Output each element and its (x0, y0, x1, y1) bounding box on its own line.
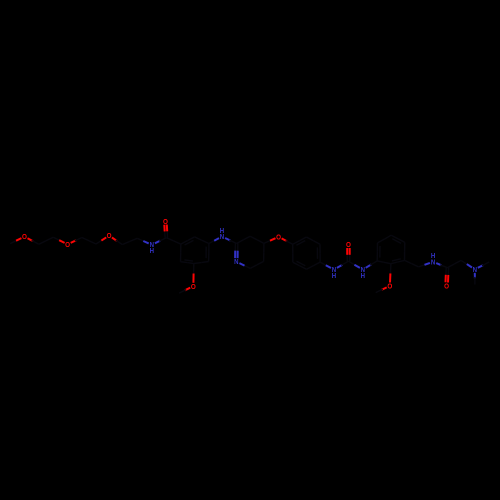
svg-text:O: O (191, 282, 196, 291)
ring2 inner aromatic line R2TR-C12 (316, 247, 318, 259)
double bond C13=O7 urea carbonyl (347, 248, 350, 261)
ring2 edge C11-T (293, 237, 307, 244)
bond C3-C4 (82, 238, 96, 245)
ring3 edge C14-B (377, 261, 391, 264)
bond C10-O6 (aryl ether) (264, 238, 276, 243)
double bond C16=O9 carbonyl (446, 268, 449, 283)
bond ring1-N2 (209, 238, 219, 243)
ring4 edge C8-T (237, 236, 251, 243)
ring2 edge B-BL (293, 262, 307, 269)
bond C2-O2 (53, 237, 64, 243)
svg-text:O: O (107, 231, 112, 240)
ring1 inner aromatic line R1L-R1T (185, 240, 194, 245)
double bond C7=O4 carbonyl (164, 225, 167, 238)
bond ring3-C15 (405, 260, 419, 267)
ring4 edge T-C10 (250, 236, 264, 243)
ring2 edge T-TR (306, 237, 320, 244)
ring1 inner aromatic line R1R-R1BR (205, 247, 207, 259)
ring1 edge B-BL (181, 262, 194, 264)
ring3 edge TR-T (391, 235, 405, 242)
svg-text:O: O (444, 281, 449, 290)
svg-text:N: N (234, 257, 238, 266)
ring1 edge R-BR (208, 244, 210, 262)
bond N4-C13 (urea) (337, 261, 349, 268)
ring4 edge B-N3 (239, 263, 250, 268)
ring3 inner aromatic line R3TR-R3T (392, 239, 401, 244)
bond C5-C6 (122, 238, 137, 244)
ring1 edge BR-B (194, 262, 209, 264)
svg-text:O: O (276, 233, 281, 242)
double bond C8=N3 amidine (235, 244, 238, 259)
ring3 inner aromatic line R3B-R3R (392, 259, 401, 261)
svg-text:H: H (220, 226, 224, 235)
ring3 edge TL-C14 (376, 243, 378, 261)
bond C13-N5 (urea) (349, 261, 360, 268)
bond N7-C19 methyl (474, 273, 476, 285)
ring2 edge BL-C11 (292, 244, 294, 262)
svg-text:N: N (473, 265, 477, 274)
ring3 edge R-TR (404, 242, 406, 260)
bond O6-C11 (282, 238, 293, 244)
bond C17-N7 (461, 260, 472, 267)
ring2 edge TR-C12 (319, 244, 321, 262)
bond O8-C21 methyl (376, 287, 387, 292)
bond C6-N1 (137, 238, 148, 243)
bond O3-C5 (112, 238, 122, 245)
bond ring1-O5 (methoxy) (192, 264, 194, 283)
bond N2-C8 (225, 238, 237, 244)
bond C12-N4 (320, 262, 331, 268)
bond C16-C17 (447, 260, 461, 267)
ring2 inner aromatic line R2B-R2BL (297, 261, 306, 266)
bond C0-O1 (methyl-ether) (10, 238, 21, 244)
bond N7-C18 methyl (478, 262, 489, 268)
svg-text:O: O (346, 240, 351, 249)
svg-text:H: H (361, 271, 365, 280)
ring3 edge T-TL (378, 235, 392, 243)
ring3 inner aromatic line R3TL-C14 (379, 246, 381, 258)
bond O1-C1 (28, 238, 39, 244)
bond O2-C3 (71, 238, 82, 243)
bond C1-C2 (39, 237, 54, 244)
ring2 inner aromatic line C11-R2T (296, 241, 305, 246)
bond ring3-O8 (methoxy) (389, 264, 392, 283)
ring4 edge BR-B (250, 261, 263, 268)
bond N6-C16 (amide) (436, 263, 447, 268)
bond O5-C20 methyl (179, 288, 190, 293)
svg-text:O: O (22, 232, 27, 241)
bond C4-O3 (96, 237, 106, 244)
bond C15-N6 (419, 263, 430, 267)
bond N1-C7 (amide) (155, 238, 166, 244)
svg-text:O: O (163, 217, 168, 226)
bond C7-ring1 (166, 238, 181, 244)
ring1 inner aromatic line R1B-R1BL (184, 260, 193, 261)
ring1 edge T-R (195, 237, 209, 244)
ring3 edge B-R (391, 260, 405, 263)
svg-text:H: H (431, 251, 435, 260)
svg-text:O: O (387, 282, 392, 291)
bond N5-C14 (366, 261, 378, 268)
ring2 edge C12-B (307, 262, 321, 269)
svg-text:O: O (65, 240, 70, 249)
ring1 edge BL-L (180, 244, 182, 262)
ring4 edge C10-BR (263, 243, 265, 261)
svg-text:H: H (150, 246, 154, 255)
svg-text:H: H (332, 271, 336, 280)
ring1 edge L-T (181, 237, 195, 244)
